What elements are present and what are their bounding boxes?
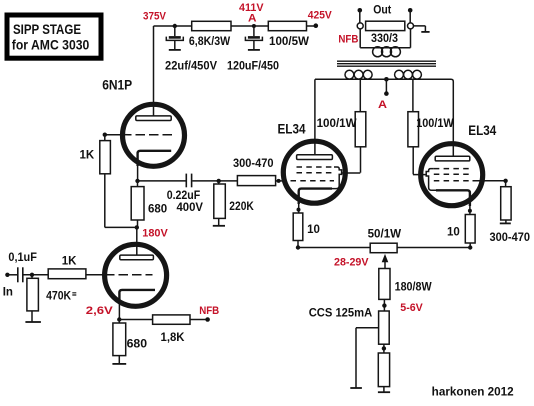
svg-text:680: 680 — [127, 338, 148, 350]
V1a cathode — [138, 151, 172, 181]
CCS element lower — [378, 353, 389, 392]
node 28-29V label — [334, 257, 369, 269]
svg-text:300-470: 300-470 — [233, 158, 274, 170]
svg-text:In: In — [3, 286, 13, 298]
svg-text:180/8W: 180/8W — [395, 282, 432, 294]
resistor 100/1W (right screen) — [408, 79, 454, 174]
ground 220K — [213, 225, 225, 227]
node junction right grid — [503, 179, 507, 183]
svg-text:EL34: EL34 — [278, 121, 306, 136]
EL34 left anode plate — [297, 155, 333, 160]
V1b grid (dashed) — [105, 274, 153, 276]
resistor 1K (upper, grid) — [80, 135, 111, 228]
node input terminal — [3, 273, 13, 299]
wire CCS tap — [356, 328, 379, 388]
wire 1K to V1b grid — [86, 274, 105, 276]
svg-text:425V: 425V — [308, 10, 333, 22]
EL34 left internal bracket — [332, 167, 342, 189]
svg-text:2,6V: 2,6V — [86, 305, 114, 317]
svg-text:1K: 1K — [80, 149, 95, 161]
node EL34 left cathode pin — [297, 208, 301, 212]
node junction 220K — [217, 179, 221, 183]
ground 470K — [25, 321, 41, 323]
node junction 5-6V — [382, 303, 386, 307]
svg-text:for AMC 3030: for AMC 3030 — [12, 37, 90, 52]
title box — [7, 15, 101, 58]
node junction rail right — [468, 245, 472, 249]
V1b cathode — [119, 290, 155, 320]
resistor 220K — [214, 181, 255, 226]
svg-text:NFB: NFB — [338, 34, 358, 46]
node NFB terminal (bottom) — [199, 305, 219, 322]
resistor 180/8W — [379, 269, 432, 312]
transformer primary winding — [315, 70, 451, 79]
svg-text:10: 10 — [447, 227, 460, 239]
resistor 6,8K/3W — [189, 21, 231, 48]
node A label (center tap) — [378, 99, 387, 111]
svg-text:NFB: NFB — [199, 305, 219, 317]
node junction 375V rail / cap C1 — [173, 24, 177, 28]
resistor 1K (input) — [48, 255, 86, 278]
EL34 left cathode — [299, 189, 332, 213]
wire cap to 1K — [24, 274, 49, 276]
svg-text:6,8K/3W: 6,8K/3W — [189, 36, 230, 48]
node primary center tap — [384, 77, 389, 96]
ground 300-470 — [500, 222, 511, 224]
svg-text:22uf/450V: 22uf/450V — [165, 61, 217, 73]
svg-text:330/3: 330/3 — [371, 33, 398, 45]
node A label (top) — [248, 13, 257, 25]
node 5-6V label — [400, 302, 423, 314]
svg-text:10: 10 — [307, 224, 320, 236]
EL34 right g2 (dashed) — [434, 173, 471, 175]
wire 1K bottom to 180V node — [105, 226, 137, 228]
wire cap to 220K node — [192, 180, 238, 182]
wire cathode rail — [298, 247, 470, 249]
node junction grid V1a / 1K — [103, 133, 107, 137]
CCS 125mA label — [309, 308, 373, 320]
capacitor 0,1uF — [8, 252, 37, 282]
svg-text:EL34: EL34 — [468, 123, 496, 138]
resistor 680 (lower cathode) — [113, 320, 147, 364]
wire to EL34 left grid — [276, 180, 283, 182]
node 2,6V label — [86, 305, 114, 317]
node Out label — [373, 5, 391, 17]
svg-text:680: 680 — [148, 203, 167, 215]
EL34 right internal bracket — [426, 169, 436, 191]
node 180V junction — [135, 225, 169, 239]
capacitor 0.22uF 400V — [167, 174, 204, 214]
EL34 left g2 (dashed) — [297, 172, 335, 174]
node junction V1b cathode — [117, 317, 121, 321]
wire EL34 right plate lead — [433, 79, 453, 156]
node 375V label — [143, 10, 167, 22]
EL34 right anode plate — [435, 156, 470, 161]
tube EL34 left envelope — [283, 141, 345, 203]
wire input to cap — [7, 274, 17, 276]
node NFB label (top) — [338, 34, 358, 46]
EL34 right cathode — [436, 190, 470, 214]
wire B+ rail — [154, 25, 316, 27]
svg-text:5-6V: 5-6V — [400, 302, 423, 314]
tube EL34 right label — [468, 123, 496, 138]
wire V1b plate lead — [136, 227, 138, 255]
svg-text:harkonen 2012: harkonen 2012 — [432, 386, 514, 398]
svg-text:CCS 125mA: CCS 125mA — [309, 308, 373, 320]
node terminal 425V — [314, 23, 319, 28]
svg-text:1,8K: 1,8K — [161, 332, 186, 344]
node 411V label — [239, 2, 264, 14]
tube EL34 left label — [278, 121, 306, 136]
ground CCS tap — [350, 387, 362, 389]
svg-text:220K: 220K — [229, 201, 254, 213]
resistor 10 (left) — [293, 213, 320, 248]
capacitor 120uF/450 — [227, 26, 279, 73]
resistor 300-470 (left, grid stopper) — [233, 158, 276, 186]
V1b anode plate — [120, 255, 154, 260]
svg-text:400V: 400V — [177, 202, 204, 214]
svg-text:A: A — [248, 13, 257, 25]
svg-text:180V: 180V — [142, 227, 168, 239]
node 425V label — [308, 10, 333, 22]
node junction 411V rail / cap C2 — [252, 24, 256, 28]
svg-text:375V: 375V — [143, 10, 167, 22]
EL34 right g1 (dashed) — [434, 180, 473, 182]
node junction 470K — [30, 273, 34, 277]
node EL34 right cathode pin — [468, 209, 472, 213]
node output terminal right (circle) — [408, 23, 414, 29]
svg-text:0,1uF: 0,1uF — [8, 252, 37, 264]
resistor 10 (right) — [447, 215, 475, 248]
resistor 470K — [27, 275, 76, 322]
svg-text:SIPP STAGE: SIPP STAGE — [13, 22, 81, 37]
resistor 680 (upper cathode) — [131, 181, 167, 228]
EL34 right g3 (dashed) — [434, 168, 471, 170]
V1a grid (dashed) — [105, 134, 173, 136]
resistor 100/1W (left screen) — [317, 79, 366, 172]
node Out terminal right — [408, 8, 413, 23]
node NFB output terminal (circle) — [357, 23, 363, 29]
tube V1b lower triode envelope — [105, 244, 167, 306]
svg-text:6N1P: 6N1P — [102, 78, 132, 93]
svg-text:470K: 470K — [46, 291, 72, 303]
node pin EL34 left grid — [277, 179, 281, 183]
transformer core — [337, 61, 436, 66]
svg-text:Out: Out — [373, 5, 391, 17]
svg-text:28-29V: 28-29V — [334, 257, 369, 269]
wire coupling node to cap — [138, 180, 186, 182]
tube EL34 right envelope — [421, 144, 483, 206]
resistor 1,8K NFB — [119, 315, 207, 344]
resistor 330/3 — [366, 21, 405, 45]
node junction CCS — [382, 344, 386, 353]
transformer secondary winding — [360, 29, 410, 57]
wire V1a plate lead — [153, 26, 155, 116]
tube V1a upper triode envelope — [123, 104, 185, 166]
ground CCS lower — [378, 391, 390, 393]
resistor 100/5W — [268, 21, 309, 48]
resistor 300-470 (right) — [490, 181, 531, 244]
svg-text:0.22uF: 0.22uF — [167, 190, 201, 202]
svg-text:50/1W: 50/1W — [368, 229, 402, 241]
node junction rail left — [296, 245, 300, 249]
svg-text:A: A — [378, 99, 387, 111]
EL34 left g1 (dashed) — [291, 180, 335, 182]
tube 6N1P label — [102, 78, 132, 93]
node Out terminal left — [358, 8, 363, 23]
svg-text:100/5W: 100/5W — [269, 36, 309, 48]
svg-text:1K: 1K — [62, 255, 77, 267]
EL34 left g3 (dashed) — [297, 166, 335, 168]
ground 680 — [112, 363, 126, 365]
potentiometer 50/1W — [368, 229, 402, 269]
wire EL34 left screen exit — [342, 172, 361, 174]
wire EL34 right grid to 300-470 — [473, 180, 506, 182]
signature harkonen 2012 — [432, 386, 514, 398]
wire EL34 right screen exit — [413, 174, 426, 176]
svg-text:100/1W: 100/1W — [317, 118, 357, 130]
svg-text:120uF/450: 120uF/450 — [227, 61, 279, 73]
wire EL34 left plate lead — [314, 79, 316, 155]
CCS element upper — [379, 311, 390, 344]
ground output right — [414, 26, 430, 32]
capacitor 22uf/450V — [165, 26, 217, 73]
svg-text:100/1W: 100/1W — [416, 118, 454, 130]
node junction V1a cathode / 680 / coupling — [135, 179, 139, 183]
V1a anode plate — [136, 116, 171, 121]
svg-text:300-470: 300-470 — [490, 232, 531, 244]
